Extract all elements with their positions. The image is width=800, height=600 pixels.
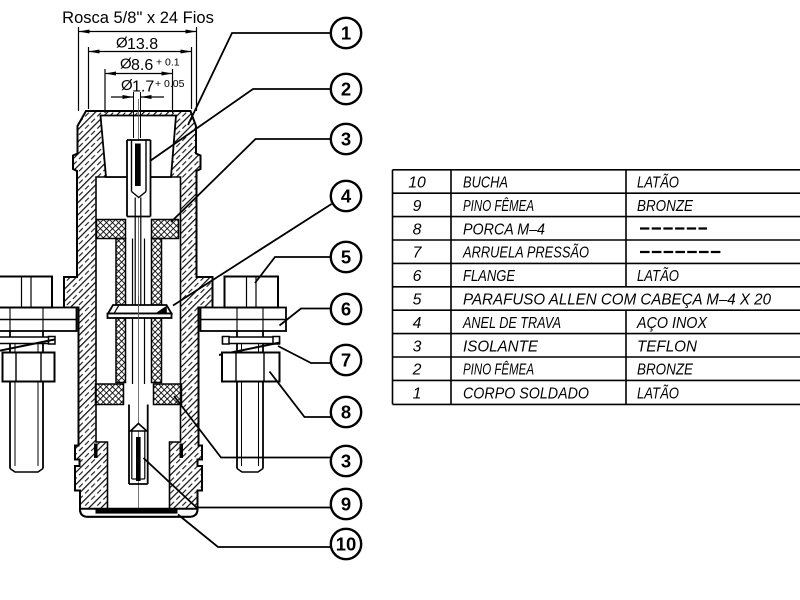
center conductor pin bbox=[134, 198, 136, 306]
balloon 3b bbox=[331, 446, 361, 476]
leader 3b bbox=[174, 396, 331, 458]
porca M-4 left (item 8) bbox=[3, 353, 55, 382]
svg-text:8.6: 8.6 bbox=[131, 57, 153, 74]
balloon 1 bbox=[331, 18, 361, 48]
upper cavity trapezoid bbox=[101, 116, 177, 178]
anel de trava cone (item 4) bbox=[108, 305, 172, 314]
svg-text:1: 1 bbox=[413, 385, 422, 402]
svg-text:ANEL DE TRAVA: ANEL DE TRAVA bbox=[462, 315, 561, 332]
dashes row 7 material bbox=[640, 251, 722, 253]
teflon block lower-left (item 3 second) bbox=[96, 384, 124, 405]
svg-text:5: 5 bbox=[341, 247, 351, 268]
table row 10 bbox=[408, 173, 771, 403]
balloon 5 bbox=[331, 242, 361, 272]
balloon 10 bbox=[331, 529, 361, 559]
svg-text:8: 8 bbox=[341, 402, 351, 423]
black groove bars bbox=[94, 444, 98, 459]
svg-text:7: 7 bbox=[341, 350, 351, 371]
svg-text:1.7: 1.7 bbox=[132, 79, 154, 96]
bottom lip bbox=[80, 509, 198, 517]
teflon bore hole lines lower bbox=[132, 319, 134, 385]
svg-text:BUCHA: BUCHA bbox=[463, 175, 508, 192]
arruela pressao left (item 7) bbox=[0, 337, 55, 344]
svg-text:9: 9 bbox=[413, 198, 422, 215]
svg-text:ISOLANTE: ISOLANTE bbox=[463, 338, 538, 355]
teflon block lower-right bbox=[154, 384, 182, 405]
teflon column lower right bbox=[152, 318, 162, 383]
leader 4 bbox=[173, 204, 332, 306]
flange plate right bbox=[201, 308, 287, 332]
svg-text:ARRUELA PRESSÃO: ARRUELA PRESSÃO bbox=[462, 243, 589, 262]
parafuso allen rod left bbox=[9, 331, 11, 469]
pino femea lower tip cone bbox=[131, 424, 147, 432]
svg-text:PORCA M–4: PORCA M–4 bbox=[463, 221, 545, 238]
pino femea upper taper tip bbox=[132, 192, 147, 198]
pino femea upper tube inner bbox=[131, 140, 133, 192]
svg-text:13.8: 13.8 bbox=[127, 36, 158, 53]
flange bolt hole lines bbox=[9, 308, 11, 332]
inner bore white region bbox=[96, 177, 181, 510]
leader 3 bbox=[171, 139, 331, 222]
svg-text:BRONZE: BRONZE bbox=[637, 198, 693, 215]
svg-text:7: 7 bbox=[413, 245, 423, 262]
leader 8 bbox=[270, 372, 332, 418]
svg-text:BRONZE: BRONZE bbox=[637, 362, 693, 379]
pino femea upper slot black bbox=[135, 144, 141, 187]
pino femea lower slot black bbox=[136, 437, 141, 481]
balloon 4 bbox=[331, 181, 361, 211]
leader 9 bbox=[144, 458, 332, 508]
centerline through cone bbox=[138, 296, 140, 319]
svg-text:2: 2 bbox=[412, 362, 422, 379]
teflon column upper left bbox=[116, 239, 126, 306]
dashes row 8 material bbox=[640, 227, 707, 229]
parafuso allen head left (item 5) bbox=[0, 277, 52, 308]
balloon 8 bbox=[331, 397, 361, 427]
balloon 7 bbox=[331, 345, 361, 375]
svg-text:3: 3 bbox=[341, 451, 351, 472]
svg-text:3: 3 bbox=[341, 129, 351, 150]
svg-text:6: 6 bbox=[413, 268, 422, 285]
parafuso allen head right bbox=[225, 277, 279, 308]
svg-text:10: 10 bbox=[408, 175, 426, 192]
flange plate left (item 6) bbox=[0, 308, 77, 332]
svg-text:AÇO INOX: AÇO INOX bbox=[636, 315, 708, 332]
svg-text:+ 0.05: + 0.05 bbox=[155, 78, 185, 90]
porca M-4 right bbox=[222, 353, 280, 382]
leader 2 bbox=[150, 89, 331, 161]
leader 5 bbox=[255, 257, 331, 283]
parts table grid bbox=[393, 170, 800, 405]
parafuso allen rod right bbox=[236, 331, 238, 469]
teflon column lower left bbox=[116, 318, 126, 383]
svg-text:3: 3 bbox=[413, 338, 422, 355]
balloon 9 bbox=[331, 489, 361, 519]
svg-text:FLANGE: FLANGE bbox=[463, 268, 515, 285]
svg-text:1: 1 bbox=[341, 23, 351, 44]
svg-text:9: 9 bbox=[341, 494, 351, 515]
pino femea lower sleeve (item 9) bbox=[128, 405, 130, 485]
svg-text:+ 0.1: + 0.1 bbox=[156, 57, 180, 69]
svg-text:PINO FÊMEA: PINO FÊMEA bbox=[463, 360, 534, 379]
svg-text:5: 5 bbox=[413, 292, 422, 309]
svg-text:LATÃO: LATÃO bbox=[637, 173, 679, 192]
leader 1 bbox=[188, 33, 331, 125]
teflon insulator upper band right bbox=[152, 220, 179, 239]
svg-text:4: 4 bbox=[413, 315, 422, 332]
svg-text:6: 6 bbox=[341, 299, 351, 320]
leader 6 bbox=[280, 309, 331, 326]
svg-text:8: 8 bbox=[413, 221, 422, 238]
balloon 2 bbox=[331, 74, 361, 104]
leader 10 bbox=[178, 515, 331, 548]
teflon column upper right bbox=[152, 239, 162, 306]
svg-text:PINO FÊMEA: PINO FÊMEA bbox=[463, 196, 534, 215]
balloon 6 bbox=[331, 294, 361, 324]
leader 7 bbox=[278, 346, 331, 363]
balloon 3 bbox=[331, 124, 361, 154]
centerline axis bbox=[138, 99, 140, 517]
svg-text:2: 2 bbox=[341, 79, 351, 100]
corpo soldado U-body silhouette (item 1) hatched bbox=[64, 111, 213, 517]
bucha black band (item 10) bbox=[96, 509, 178, 513]
arruela pressao right bbox=[223, 337, 280, 344]
svg-text:PARAFUSO ALLEN COM CABEÇA M–4: PARAFUSO ALLEN COM CABEÇA M–4 X 20 bbox=[463, 292, 771, 309]
svg-text:CORPO SOLDADO: CORPO SOLDADO bbox=[463, 385, 589, 402]
svg-text:10: 10 bbox=[336, 534, 357, 555]
teflon bore hole lines upper bbox=[132, 239, 134, 306]
svg-text:LATÃO: LATÃO bbox=[637, 266, 679, 285]
anel de trava plate bbox=[108, 314, 172, 319]
svg-text:4: 4 bbox=[341, 186, 352, 207]
pino femea lower inner bbox=[131, 431, 133, 479]
anel de trava black section bbox=[156, 306, 167, 314]
svg-text:TEFLON: TEFLON bbox=[637, 338, 698, 355]
svg-text:Rosca 5/8" x 24 Fios: Rosca 5/8" x 24 Fios bbox=[62, 9, 214, 27]
pino femea upper sleeve white fill bbox=[127, 140, 151, 217]
teflon insulator upper band left (item 3) bbox=[97, 220, 126, 239]
svg-text:LATÃO: LATÃO bbox=[637, 383, 679, 402]
pino femea upper sleeve (item 2) bbox=[126, 140, 128, 217]
